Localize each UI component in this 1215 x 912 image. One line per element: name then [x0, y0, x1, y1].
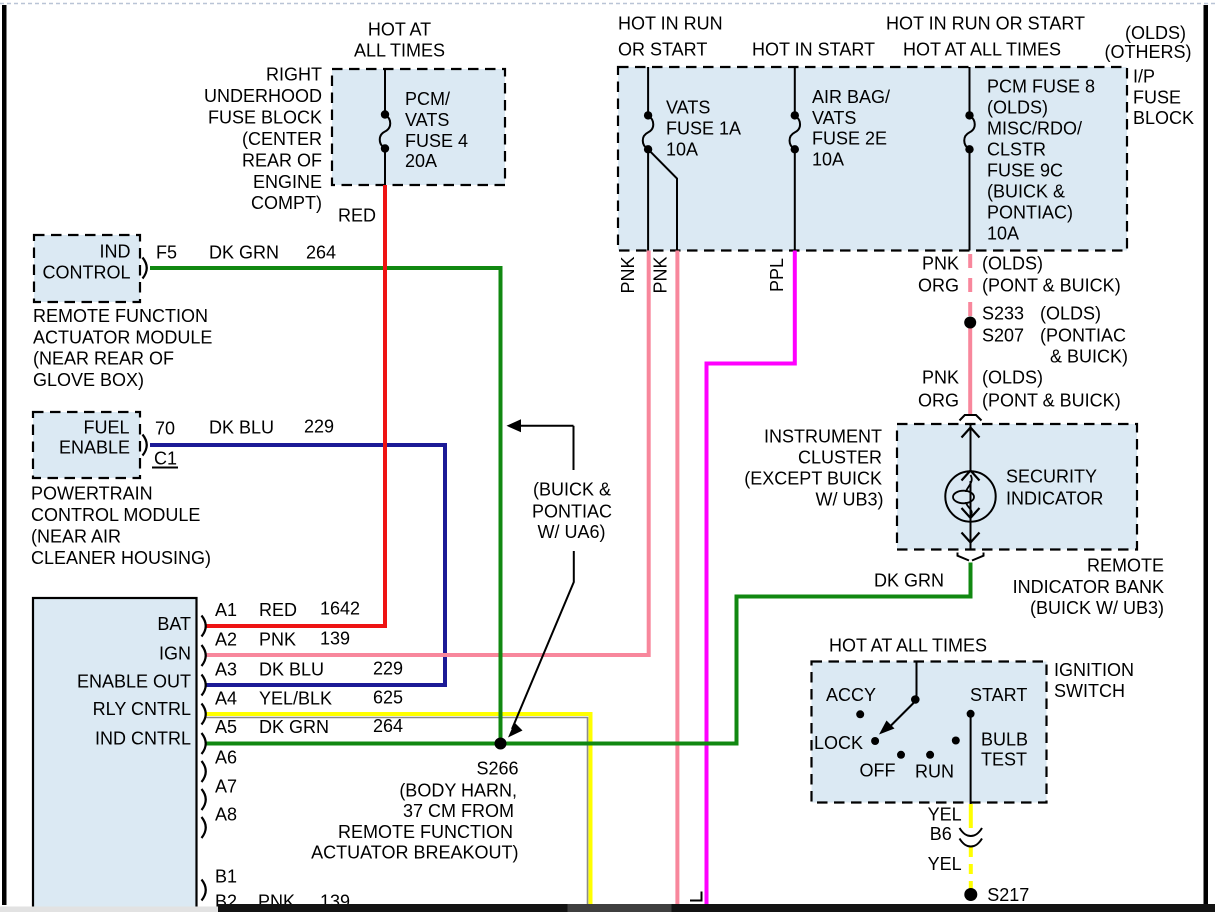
svg-text:FUSE 4: FUSE 4 [405, 131, 468, 151]
svg-text:LOCK: LOCK [814, 733, 863, 753]
svg-text:(PONTIAC: (PONTIAC [1040, 326, 1126, 346]
svg-text:REMOTE: REMOTE [1087, 556, 1164, 576]
svg-text:PCM FUSE 8: PCM FUSE 8 [987, 77, 1095, 97]
svg-text:229: 229 [373, 659, 403, 679]
svg-text:B1: B1 [215, 867, 237, 887]
svg-text:OFF: OFF [860, 761, 896, 781]
svg-text:(PONT & BUICK): (PONT & BUICK) [982, 391, 1121, 411]
svg-text:ORG: ORG [918, 391, 959, 411]
svg-text:CLSTR: CLSTR [987, 140, 1046, 160]
svg-text:S233: S233 [982, 304, 1024, 324]
svg-text:REMOTE FUNCTION: REMOTE FUNCTION [33, 306, 208, 326]
svg-text:IND CNTRL: IND CNTRL [95, 729, 191, 749]
svg-text:SWITCH: SWITCH [1054, 681, 1125, 701]
svg-text:CLUSTER: CLUSTER [798, 448, 882, 468]
svg-text:HOT IN START: HOT IN START [752, 40, 875, 60]
svg-text:A3: A3 [215, 660, 237, 680]
svg-text:(BODY HARN,: (BODY HARN, [399, 781, 517, 801]
svg-text:RED: RED [338, 206, 376, 226]
svg-text:RED: RED [259, 600, 297, 620]
svg-text:START: START [970, 685, 1027, 705]
svg-text:FUSE 9C: FUSE 9C [987, 161, 1063, 181]
svg-text:HOT IN RUN OR START: HOT IN RUN OR START [886, 14, 1085, 34]
svg-text:HOT AT: HOT AT [368, 20, 431, 40]
svg-text:INDICATOR BANK: INDICATOR BANK [1013, 577, 1164, 597]
svg-text:REMOTE FUNCTION: REMOTE FUNCTION [338, 822, 513, 842]
svg-text:PNK: PNK [618, 256, 638, 293]
svg-text:GLOVE BOX): GLOVE BOX) [33, 370, 144, 390]
svg-text:FUSE 2E: FUSE 2E [812, 129, 887, 149]
svg-text:ENABLE: ENABLE [59, 438, 130, 458]
svg-text:229: 229 [304, 417, 334, 437]
svg-text:DK GRN: DK GRN [209, 243, 279, 263]
svg-text:A4: A4 [215, 689, 237, 709]
svg-text:OR START: OR START [618, 40, 707, 60]
svg-text:SECURITY: SECURITY [1006, 467, 1097, 487]
svg-text:YEL: YEL [928, 805, 962, 825]
svg-text:POWERTRAIN: POWERTRAIN [31, 484, 153, 504]
svg-text:264: 264 [373, 716, 403, 736]
svg-text:UNDERHOOD: UNDERHOOD [204, 86, 322, 106]
svg-text:37 CM FROM: 37 CM FROM [403, 801, 514, 821]
svg-text:FUSE BLOCK: FUSE BLOCK [208, 108, 322, 128]
svg-text:HOT AT ALL TIMES: HOT AT ALL TIMES [903, 40, 1061, 60]
svg-text:DK GRN: DK GRN [259, 717, 329, 737]
svg-text:BULB: BULB [981, 730, 1028, 750]
svg-text:RLY CNTRL: RLY CNTRL [93, 699, 191, 719]
svg-text:ACTUATOR MODULE: ACTUATOR MODULE [33, 328, 212, 348]
svg-text:BLOCK: BLOCK [1133, 108, 1194, 128]
svg-text:W/ UA6): W/ UA6) [537, 522, 605, 542]
svg-text:139: 139 [320, 629, 350, 649]
svg-text:S207: S207 [982, 326, 1024, 346]
svg-text:C1: C1 [154, 449, 177, 469]
svg-text:(OLDS): (OLDS) [1040, 304, 1101, 324]
svg-text:HOT IN RUN: HOT IN RUN [618, 14, 723, 34]
svg-text:(OLDS): (OLDS) [982, 368, 1043, 388]
svg-text:BAT: BAT [157, 614, 191, 634]
svg-text:PONTIAC): PONTIAC) [987, 203, 1073, 223]
svg-text:A7: A7 [215, 777, 237, 797]
svg-text:10A: 10A [812, 150, 844, 170]
svg-text:COMPT): COMPT) [251, 193, 322, 213]
svg-text:FUSE: FUSE [1133, 88, 1181, 108]
svg-text:DK BLU: DK BLU [259, 660, 324, 680]
svg-text:PONTIAC: PONTIAC [532, 502, 612, 522]
svg-text:10A: 10A [666, 140, 698, 160]
svg-text:IGNITION: IGNITION [1054, 660, 1134, 680]
svg-text:& BUICK): & BUICK) [1050, 347, 1128, 367]
svg-text:PNK: PNK [259, 630, 296, 650]
svg-text:(NEAR AIR: (NEAR AIR [31, 527, 121, 547]
svg-text:A1: A1 [215, 600, 237, 620]
svg-text:YEL/BLK: YEL/BLK [259, 689, 332, 709]
svg-text:PNK: PNK [922, 368, 959, 388]
svg-text:264: 264 [306, 243, 336, 263]
svg-text:(BUICK &: (BUICK & [533, 480, 611, 500]
svg-text:A2: A2 [215, 630, 237, 650]
svg-text:W/ UB3): W/ UB3) [815, 490, 883, 510]
svg-text:DK BLU: DK BLU [209, 418, 274, 438]
svg-text:(EXCEPT BUICK: (EXCEPT BUICK [744, 469, 882, 489]
svg-text:PNK: PNK [922, 254, 959, 274]
svg-text:70: 70 [155, 419, 175, 439]
svg-text:(OLDS): (OLDS) [1125, 23, 1186, 43]
svg-text:S266: S266 [476, 759, 518, 779]
svg-text:(OLDS): (OLDS) [987, 98, 1048, 118]
svg-text:INDICATOR: INDICATOR [1006, 489, 1103, 509]
svg-text:625: 625 [373, 688, 403, 708]
svg-text:YEL: YEL [928, 854, 962, 874]
svg-text:B6: B6 [930, 824, 952, 844]
svg-text:PCM/: PCM/ [405, 89, 450, 109]
svg-text:INSTRUMENT: INSTRUMENT [764, 427, 882, 447]
svg-text:FUSE 1A: FUSE 1A [666, 119, 741, 139]
svg-text:ENGINE: ENGINE [253, 172, 322, 192]
svg-text:PPL: PPL [767, 258, 787, 292]
svg-text:ACTUATOR BREAKOUT): ACTUATOR BREAKOUT) [311, 843, 518, 863]
svg-text:(NEAR REAR OF: (NEAR REAR OF [33, 349, 174, 369]
svg-text:VATS: VATS [405, 110, 449, 130]
svg-text:A8: A8 [215, 805, 237, 825]
svg-text:CONTROL: CONTROL [42, 263, 130, 283]
svg-text:RIGHT: RIGHT [266, 65, 322, 85]
svg-text:ENABLE OUT: ENABLE OUT [77, 672, 191, 692]
svg-text:CLEANER HOUSING): CLEANER HOUSING) [31, 548, 211, 568]
svg-text:CONTROL MODULE: CONTROL MODULE [31, 505, 200, 525]
svg-text:HOT AT ALL TIMES: HOT AT ALL TIMES [829, 636, 987, 656]
svg-text:F5: F5 [156, 243, 177, 263]
svg-text:(OLDS): (OLDS) [982, 254, 1043, 274]
svg-text:1642: 1642 [320, 599, 360, 619]
svg-text:IND: IND [100, 242, 131, 262]
svg-text:RUN: RUN [915, 762, 954, 782]
svg-text:(BUICK W/ UB3): (BUICK W/ UB3) [1030, 598, 1164, 618]
svg-text:20A: 20A [405, 151, 437, 171]
svg-text:I/P: I/P [1133, 67, 1155, 87]
svg-text:(PONT & BUICK): (PONT & BUICK) [982, 276, 1121, 296]
svg-text:DK GRN: DK GRN [874, 571, 944, 591]
svg-text:10A: 10A [987, 224, 1019, 244]
svg-text:REAR OF: REAR OF [242, 151, 322, 171]
svg-text:S217: S217 [987, 885, 1029, 905]
svg-text:ACCY: ACCY [826, 685, 876, 705]
svg-text:VATS: VATS [812, 108, 856, 128]
svg-text:VATS: VATS [666, 98, 710, 118]
svg-text:(BUICK &: (BUICK & [987, 182, 1065, 202]
svg-text:A6: A6 [215, 748, 237, 768]
svg-text:FUEL: FUEL [83, 418, 129, 438]
svg-text:(CENTER: (CENTER [242, 129, 322, 149]
svg-text:TEST: TEST [981, 750, 1027, 770]
svg-text:A5: A5 [215, 717, 237, 737]
svg-text:ALL TIMES: ALL TIMES [354, 41, 445, 61]
svg-text:(OTHERS): (OTHERS) [1105, 42, 1192, 62]
svg-text:PNK: PNK [651, 256, 671, 293]
svg-text:MISC/RDO/: MISC/RDO/ [987, 119, 1082, 139]
svg-text:AIR BAG/: AIR BAG/ [812, 87, 890, 107]
svg-text:IGN: IGN [159, 644, 191, 664]
svg-text:ORG: ORG [918, 276, 959, 296]
